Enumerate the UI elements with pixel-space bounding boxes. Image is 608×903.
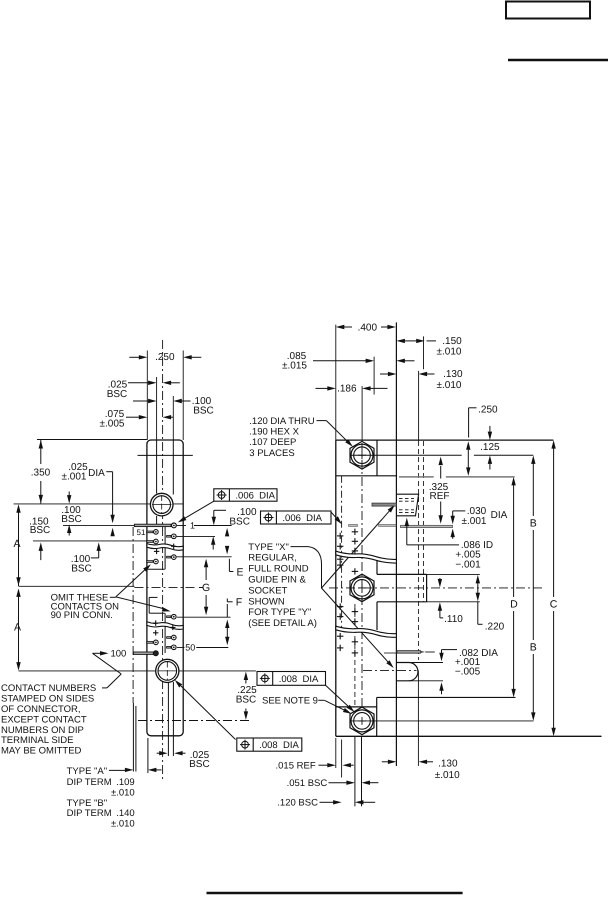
svg-text:.107 DEEP: .107 DEEP	[249, 437, 296, 448]
svg-text:TERMINAL SIDE: TERMINAL SIDE	[1, 735, 74, 746]
svg-text:±.001: ±.001	[62, 472, 87, 483]
svg-text:SOCKET: SOCKET	[248, 585, 287, 596]
svg-text:.250: .250	[155, 352, 175, 363]
svg-text:BSC: BSC	[61, 514, 82, 525]
svg-text:BSC: BSC	[236, 694, 257, 705]
svg-text:±.001: ±.001	[462, 516, 487, 527]
svg-text:100: 100	[110, 649, 126, 660]
svg-text:B: B	[530, 518, 537, 530]
svg-text:MAY BE OMITTED: MAY BE OMITTED	[1, 746, 82, 757]
svg-text:−.005: −.005	[455, 666, 481, 677]
svg-text:FULL ROUND: FULL ROUND	[248, 564, 308, 575]
svg-text:.015 REF: .015 REF	[276, 760, 316, 771]
svg-text:SHOWN: SHOWN	[248, 596, 285, 607]
svg-text:BSC: BSC	[193, 405, 214, 416]
svg-text:E: E	[237, 566, 244, 578]
svg-text:C: C	[550, 598, 558, 610]
svg-text:NUMBERS ON DIP: NUMBERS ON DIP	[1, 725, 84, 736]
svg-text:REF: REF	[430, 491, 450, 502]
svg-text:.120 DIA THRU: .120 DIA THRU	[249, 416, 314, 427]
svg-text:FOR TYPE "Y": FOR TYPE "Y"	[248, 607, 311, 618]
svg-text:TYPE "X": TYPE "X"	[248, 542, 289, 553]
svg-text:DIP TERM: DIP TERM	[67, 777, 112, 788]
svg-text:.051 BSC: .051 BSC	[287, 778, 328, 789]
svg-text:DIA: DIA	[88, 468, 105, 479]
svg-text:BSC: BSC	[229, 516, 250, 527]
svg-text:(SEE DETAIL A): (SEE DETAIL A)	[248, 618, 317, 629]
svg-text:−.001: −.001	[455, 560, 481, 571]
svg-text:±.005: ±.005	[100, 419, 125, 430]
svg-text:A: A	[13, 538, 20, 550]
svg-text:DIA: DIA	[491, 510, 508, 521]
svg-text:TYPE "A": TYPE "A"	[67, 766, 108, 777]
svg-text:BSC: BSC	[30, 525, 51, 536]
svg-text:A: A	[14, 621, 21, 633]
svg-text:.006 DIA: .006 DIA	[282, 513, 322, 524]
svg-text:±.015: ±.015	[282, 361, 307, 372]
svg-text:GUIDE PIN &: GUIDE PIN &	[248, 575, 306, 586]
svg-text:±.010: ±.010	[435, 770, 460, 781]
svg-text:B: B	[530, 642, 537, 654]
svg-text:.125: .125	[480, 442, 500, 453]
svg-text:.350: .350	[31, 468, 51, 479]
svg-text:.130: .130	[443, 369, 463, 380]
svg-text:OF CONNECTOR,: OF CONNECTOR,	[1, 704, 81, 715]
svg-text:BSC: BSC	[71, 563, 92, 574]
svg-text:.120 BSC: .120 BSC	[277, 797, 318, 808]
svg-text:F: F	[236, 596, 242, 608]
svg-text:.130: .130	[438, 758, 458, 769]
svg-text:3 PLACES: 3 PLACES	[249, 448, 294, 459]
svg-text:.190 HEX X: .190 HEX X	[249, 427, 299, 438]
svg-text:±.010: ±.010	[437, 380, 462, 391]
svg-text:±.010: ±.010	[437, 347, 462, 358]
svg-text:±.010: ±.010	[111, 787, 135, 798]
svg-text:.220: .220	[485, 622, 505, 633]
svg-text:51: 51	[137, 528, 146, 537]
svg-text:.008 DIA: .008 DIA	[259, 740, 299, 751]
svg-text:BSC: BSC	[107, 389, 128, 400]
svg-text:SEE NOTE 9: SEE NOTE 9	[262, 696, 318, 707]
svg-text:.150: .150	[442, 336, 462, 347]
svg-text:G: G	[202, 582, 210, 594]
svg-text:BSC: BSC	[189, 759, 210, 770]
svg-text:.110: .110	[444, 614, 463, 625]
svg-text:REGULAR,: REGULAR,	[248, 553, 297, 564]
svg-text:±.010: ±.010	[111, 818, 135, 829]
svg-text:D: D	[510, 598, 518, 610]
svg-text:.006 DIA: .006 DIA	[235, 490, 275, 501]
svg-text:DIP TERM: DIP TERM	[67, 808, 112, 819]
svg-text:EXCEPT CONTACT: EXCEPT CONTACT	[1, 714, 87, 725]
svg-text:50: 50	[185, 643, 195, 653]
svg-text:.400: .400	[358, 322, 378, 333]
svg-text:.186: .186	[337, 384, 357, 395]
svg-text:.250: .250	[478, 404, 498, 415]
svg-text:90 PIN CONN.: 90 PIN CONN.	[51, 610, 113, 621]
svg-text:.008 DIA: .008 DIA	[279, 674, 319, 685]
svg-text:STAMPED ON SIDES: STAMPED ON SIDES	[1, 694, 94, 705]
svg-text:CONTACT NUMBERS: CONTACT NUMBERS	[1, 683, 96, 694]
